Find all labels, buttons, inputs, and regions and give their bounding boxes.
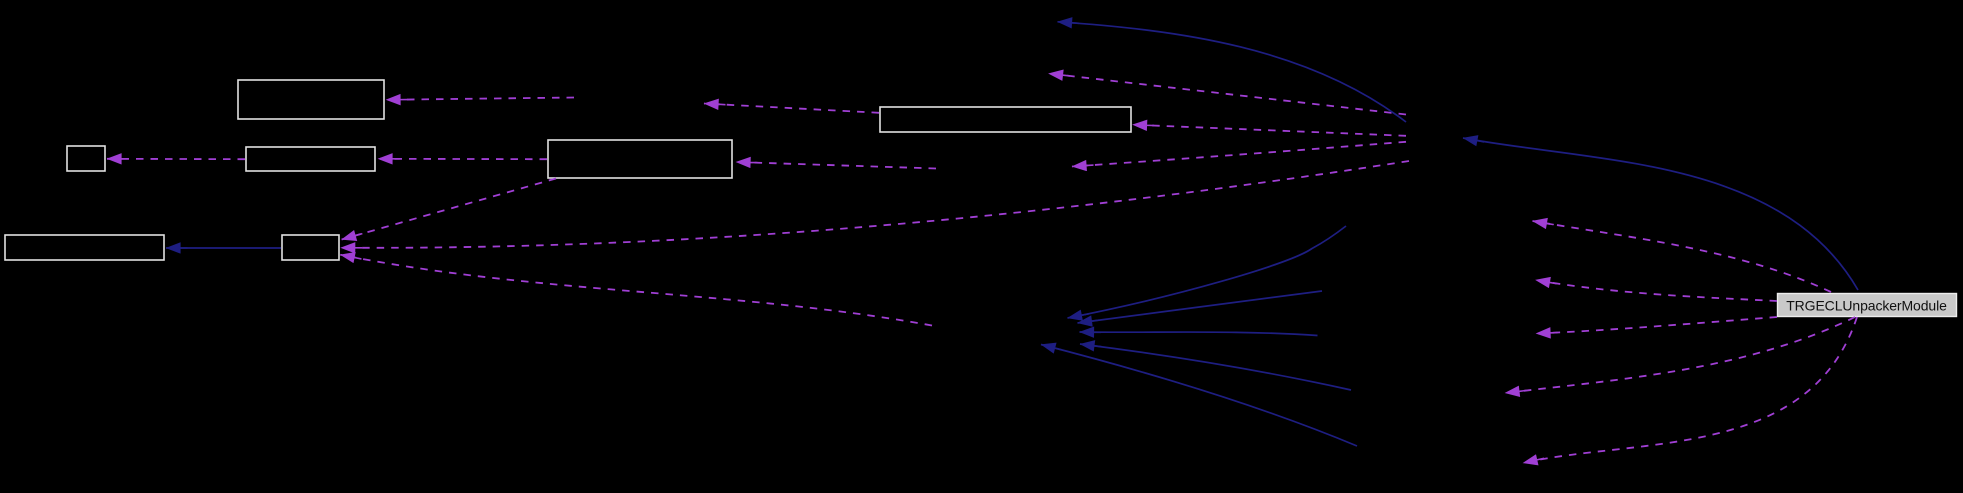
node box C	[246, 147, 375, 171]
blue edge hidden X1 up-left	[1058, 22, 1407, 122]
dashed edge G to hidden node	[704, 104, 879, 113]
blue edge L5	[1041, 345, 1357, 447]
dashed edge to G	[1133, 125, 1407, 136]
dashed edge to D	[736, 162, 936, 169]
blue edge L4	[1080, 344, 1351, 390]
node box F	[282, 235, 339, 260]
node box B	[67, 146, 105, 171]
blue edge F to E	[166, 247, 281, 249]
dashed edge D to C	[378, 158, 547, 160]
dashed fan edge 1 from main	[1533, 221, 1832, 292]
node box E	[5, 235, 164, 260]
dashed edge hidden to hidden mid	[1072, 142, 1406, 167]
blue edge L2	[1078, 291, 1323, 323]
node TRGECLUnpackerModule	[1778, 294, 1957, 317]
node box D	[548, 140, 732, 178]
dashed edge lower hidden to F	[340, 255, 932, 326]
node box G	[880, 107, 1131, 132]
blue edge L3	[1080, 332, 1318, 336]
node box A	[238, 80, 384, 119]
dashed edge to upper hidden node	[1049, 74, 1407, 115]
blue edge L1	[1068, 226, 1347, 318]
blue edge main to X1	[1463, 138, 1858, 290]
dashed edge C to B	[107, 158, 245, 160]
dashed long edge to F	[341, 161, 1409, 248]
dashed fan edge 2 from main	[1536, 280, 1778, 301]
dashed edge D bottom to F	[342, 179, 556, 240]
dashed edge to A	[386, 98, 574, 100]
svg-text:TRGECLUnpackerModule: TRGECLUnpackerModule	[1786, 298, 1947, 314]
dashed fan edge 3 from main	[1536, 317, 1777, 334]
dashed fan edge 4 from main	[1505, 317, 1855, 393]
dashed fan edge 5 from main	[1523, 317, 1857, 463]
